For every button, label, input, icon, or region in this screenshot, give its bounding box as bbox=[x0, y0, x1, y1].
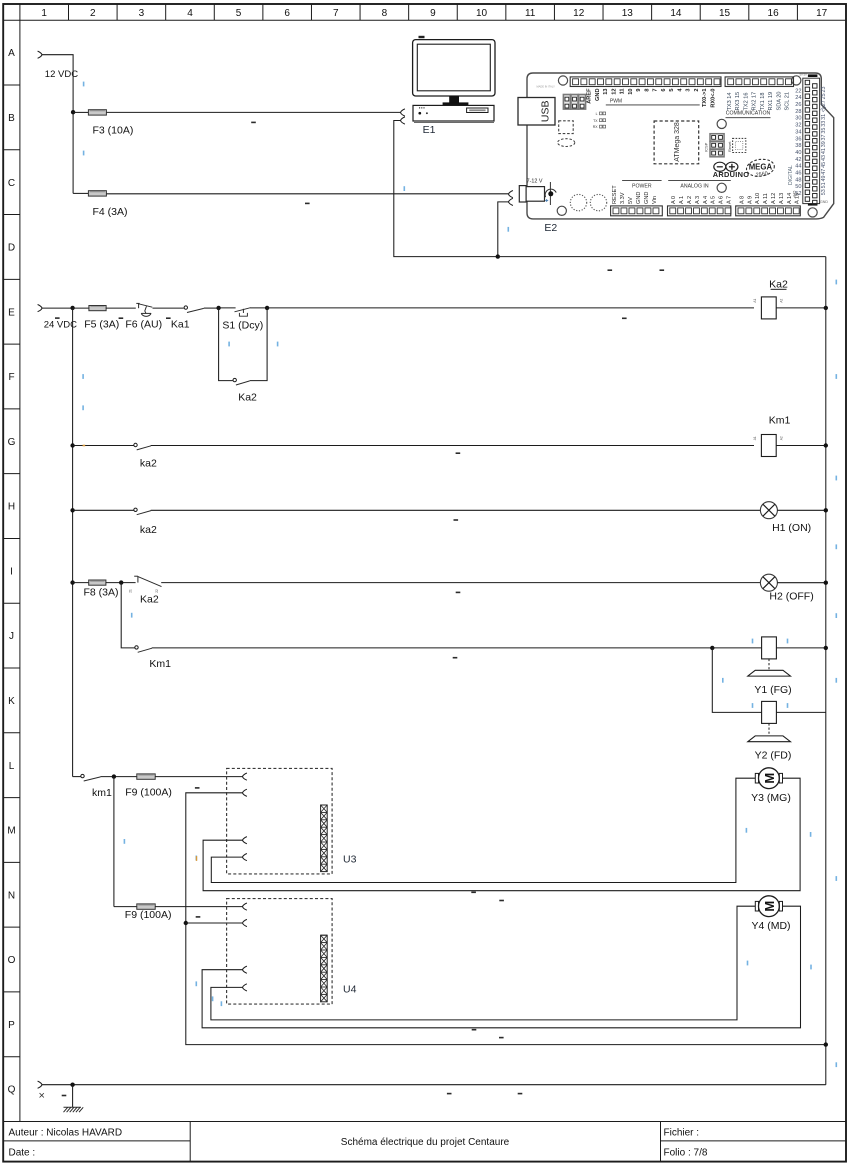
solenoid coil Y1 bbox=[762, 637, 777, 659]
svg-text:49: 49 bbox=[821, 176, 827, 182]
wire 24VDC left bus bbox=[72, 308, 74, 777]
svg-text:SCL 21: SCL 21 bbox=[785, 92, 791, 110]
svg-text:5: 5 bbox=[236, 8, 242, 19]
label Y1 (FG) bbox=[754, 684, 791, 696]
contact Ka2 NC bbox=[134, 576, 161, 587]
wire ka2 to coil Km1 bbox=[151, 445, 754, 447]
wire S1 bypass left bbox=[219, 308, 233, 381]
svg-text:35: 35 bbox=[821, 128, 827, 134]
svg-text:TX3 14: TX3 14 bbox=[727, 92, 733, 110]
svg-text:Ka2: Ka2 bbox=[238, 391, 257, 403]
label A15 bbox=[792, 191, 796, 197]
svg-text:F4 (3A): F4 (3A) bbox=[93, 206, 128, 218]
svg-text:A 7: A 7 bbox=[727, 196, 733, 204]
junction earth bbox=[70, 1083, 74, 1087]
wire F4 feed bbox=[73, 192, 88, 194]
svg-text:Fichier :: Fichier : bbox=[664, 1127, 700, 1138]
drive module U4 box bbox=[227, 899, 333, 1005]
E1 connector pin 1 bbox=[401, 109, 405, 116]
E2 pin labels AREF..RX0 bbox=[587, 88, 717, 108]
E2 power pin labels bbox=[612, 185, 658, 204]
label F5 (3A) bbox=[84, 319, 119, 331]
svg-text:28: 28 bbox=[795, 109, 801, 115]
svg-text:M: M bbox=[7, 826, 15, 837]
svg-text:24: 24 bbox=[795, 95, 801, 101]
wire tick orange bbox=[83, 445, 86, 447]
svg-text:6: 6 bbox=[284, 8, 290, 19]
wire E2 return bbox=[498, 202, 509, 257]
E2 power jack bbox=[519, 179, 544, 202]
svg-text:46: 46 bbox=[795, 171, 801, 177]
wire tick bbox=[83, 82, 85, 87]
wire U3 minus return bbox=[186, 793, 826, 1045]
E2 regulator outline bbox=[559, 121, 574, 134]
wire bus to km1 bbox=[73, 776, 81, 778]
E2 power connector + bbox=[509, 191, 513, 198]
svg-text:Auteur : Nicolas HAVARD: Auteur : Nicolas HAVARD bbox=[9, 1127, 123, 1138]
svg-text:8: 8 bbox=[382, 8, 388, 19]
svg-text:GND: GND bbox=[595, 89, 601, 101]
label F8 (3A) bbox=[84, 586, 119, 598]
wire mark bbox=[119, 317, 124, 319]
wire tick bbox=[124, 839, 126, 844]
wire marks bbox=[499, 832, 811, 901]
label F3 (10A) bbox=[93, 125, 134, 137]
svg-text:40: 40 bbox=[795, 150, 801, 156]
svg-text:A 10: A 10 bbox=[755, 193, 761, 204]
solenoid coil Y2 bbox=[762, 701, 777, 723]
fuse F5 bbox=[89, 306, 106, 311]
svg-text:A 12: A 12 bbox=[771, 193, 777, 204]
wire E1 return bbox=[394, 121, 498, 257]
label MEGA 2560 bbox=[745, 158, 775, 179]
svg-text:I: I bbox=[10, 566, 13, 577]
svg-text:F: F bbox=[8, 372, 14, 383]
wire to earth bbox=[72, 1085, 74, 1108]
svg-text:F9 (100A): F9 (100A) bbox=[125, 909, 172, 921]
U3 output 1 bbox=[243, 837, 247, 844]
junction return bus bbox=[824, 1042, 828, 1046]
wire S1 bypass right bbox=[250, 308, 267, 381]
svg-text:F9 (100A): F9 (100A) bbox=[125, 786, 172, 798]
wire tick bbox=[277, 342, 279, 347]
svg-text:Y3 (MG): Y3 (MG) bbox=[751, 792, 791, 804]
wire mark bbox=[622, 318, 627, 320]
svg-text:5V: 5V bbox=[628, 197, 634, 204]
label Km1 contact bbox=[149, 658, 171, 670]
wire Y1 to bus bbox=[776, 647, 825, 649]
svg-text:21: 21 bbox=[129, 589, 133, 593]
E2 analog pin labels A8-A15 bbox=[739, 193, 800, 204]
wire mark bbox=[166, 317, 171, 319]
wire bus to ka2 G bbox=[73, 445, 134, 447]
svg-text:30: 30 bbox=[795, 116, 801, 122]
svg-text:GND: GND bbox=[644, 192, 650, 204]
svg-text:ANALOG IN: ANALOG IN bbox=[680, 184, 709, 190]
svg-text:13: 13 bbox=[622, 8, 634, 19]
E2 made-in-italy text bbox=[537, 85, 556, 89]
E2 jack polarity symbol bbox=[545, 182, 556, 205]
svg-text:A 11: A 11 bbox=[763, 193, 769, 204]
svg-text:Q: Q bbox=[8, 1085, 16, 1096]
svg-text:6: 6 bbox=[661, 89, 667, 92]
wire mark bbox=[454, 519, 459, 521]
svg-text:TX0->1: TX0->1 bbox=[702, 89, 708, 108]
label H1 (ON) bbox=[772, 522, 811, 534]
drive module U3 box bbox=[227, 768, 333, 874]
labels 5V pins bbox=[800, 73, 808, 77]
svg-text:48: 48 bbox=[795, 177, 801, 183]
svg-text:C: C bbox=[8, 178, 15, 189]
relay coil Km1 bbox=[761, 435, 776, 457]
label F9 (100A) b bbox=[125, 909, 172, 921]
svg-text:A 13: A 13 bbox=[779, 193, 785, 204]
U4 input 2 bbox=[243, 919, 247, 926]
label S1 (Dcy) bbox=[222, 320, 263, 332]
fuse F9b bbox=[137, 904, 155, 909]
svg-text:13: 13 bbox=[603, 89, 609, 95]
svg-text:H1 (ON): H1 (ON) bbox=[772, 522, 811, 534]
motor Y4 bbox=[755, 896, 782, 917]
wire F9a to U3 bbox=[155, 776, 242, 778]
label F9 (100A) a bbox=[125, 786, 172, 798]
svg-text:AREF: AREF bbox=[587, 88, 593, 104]
indicator lamp H1 bbox=[760, 502, 777, 519]
push button S1 (Dcy) bbox=[235, 308, 251, 317]
junction bus row I bbox=[70, 580, 74, 584]
wire F6 to Ka1 bbox=[153, 307, 184, 309]
label Reset bbox=[727, 141, 732, 152]
svg-text:A 0: A 0 bbox=[671, 196, 677, 204]
svg-text:ATMega 328: ATMega 328 bbox=[674, 122, 681, 162]
wire H1 to bus bbox=[777, 509, 825, 511]
wire tick bbox=[228, 342, 230, 347]
svg-text:45: 45 bbox=[821, 162, 827, 168]
svg-text:8: 8 bbox=[644, 89, 650, 92]
E2 pin header communication bbox=[725, 77, 793, 87]
svg-text:ka2: ka2 bbox=[140, 457, 157, 469]
svg-text:36: 36 bbox=[795, 136, 801, 142]
svg-text:A 3: A 3 bbox=[695, 196, 701, 204]
svg-text:D: D bbox=[8, 243, 15, 254]
wire to F9b bbox=[114, 906, 137, 908]
svg-text:5: 5 bbox=[669, 89, 675, 92]
svg-text:U4: U4 bbox=[343, 983, 357, 995]
wire ticks right bus bbox=[836, 280, 838, 1068]
svg-text:A 2: A 2 bbox=[687, 196, 693, 204]
svg-text:RX3 15: RX3 15 bbox=[735, 92, 741, 111]
wire U3 to Y3 right bbox=[203, 778, 800, 891]
wire F8 to junction bbox=[106, 582, 136, 584]
wire return to bus bbox=[498, 256, 826, 258]
wire mark bbox=[456, 452, 461, 454]
label ICSP bbox=[703, 142, 708, 152]
svg-text:Ka2: Ka2 bbox=[140, 593, 159, 605]
svg-text:43: 43 bbox=[821, 155, 827, 161]
coil Km1 pin labels bbox=[753, 436, 784, 440]
svg-text:33: 33 bbox=[821, 121, 827, 127]
svg-text:U3: U3 bbox=[343, 853, 357, 865]
svg-text:L: L bbox=[596, 112, 598, 116]
svg-text:J: J bbox=[9, 631, 14, 642]
svg-text:A: A bbox=[8, 48, 15, 59]
junction S1 left bbox=[216, 306, 220, 310]
U4 input 1 bbox=[243, 903, 247, 910]
contact ka2 G bbox=[134, 443, 151, 450]
svg-text:Vin: Vin bbox=[652, 196, 658, 204]
wire branch to Y2 bbox=[712, 648, 761, 713]
svg-text:ICSP: ICSP bbox=[703, 142, 708, 152]
svg-text:O: O bbox=[8, 955, 16, 966]
label U3 bbox=[343, 853, 357, 865]
svg-text:ka2: ka2 bbox=[140, 524, 157, 536]
junction U4 minus tap bbox=[184, 921, 188, 925]
E2 pin header digital top bbox=[570, 77, 721, 87]
coil Ka2 pin labels bbox=[753, 299, 784, 303]
wire tick bbox=[508, 227, 510, 232]
wire U4 minus bbox=[186, 922, 243, 924]
svg-text:41: 41 bbox=[821, 148, 827, 154]
E2 pin labels 14..21 bbox=[727, 92, 791, 111]
svg-text:Ka2: Ka2 bbox=[769, 278, 788, 290]
svg-text:10: 10 bbox=[476, 8, 488, 19]
E2 jumper header bbox=[563, 95, 585, 110]
svg-text:32: 32 bbox=[795, 123, 801, 129]
svg-text:RX: RX bbox=[593, 125, 598, 129]
label F6 (AU) bbox=[125, 319, 162, 331]
wire S1 to junction bbox=[250, 307, 267, 309]
svg-text:27: 27 bbox=[821, 100, 827, 106]
svg-text:E1: E1 bbox=[423, 124, 436, 136]
svg-text:H: H bbox=[8, 502, 15, 513]
svg-text:3: 3 bbox=[686, 89, 692, 92]
wire Y2 to bus bbox=[776, 711, 825, 713]
Arduino Mega board E2 outline bbox=[527, 73, 834, 219]
junction bus Y1 bbox=[824, 646, 828, 650]
contact Ka2 hold bbox=[233, 378, 250, 385]
svg-text:5V: 5V bbox=[804, 73, 808, 77]
E1 connector pin 2 bbox=[401, 117, 405, 124]
Y2 actuator link bbox=[768, 723, 770, 735]
junction bus row G bbox=[70, 443, 74, 447]
E2 analog header A8-A15 bbox=[736, 206, 801, 216]
wire branch to Km1 contact bbox=[121, 583, 134, 648]
label ka2 H bbox=[140, 524, 157, 536]
svg-text:×: × bbox=[39, 1090, 45, 1102]
svg-text:S1 (Dcy): S1 (Dcy) bbox=[222, 320, 263, 332]
svg-text:23: 23 bbox=[821, 87, 827, 93]
svg-text:A1: A1 bbox=[753, 299, 757, 303]
svg-text:14: 14 bbox=[670, 8, 682, 19]
label coil Ka2 bbox=[769, 278, 788, 290]
wire ticks bbox=[82, 374, 84, 410]
svg-text:47: 47 bbox=[821, 169, 827, 175]
label Ka2 NC bbox=[140, 593, 159, 605]
svg-text:39: 39 bbox=[821, 141, 827, 147]
E2 pin labels 22..52 bbox=[795, 88, 801, 197]
svg-text:10: 10 bbox=[628, 89, 634, 95]
label Y2 (FD) bbox=[755, 749, 792, 761]
E2 arduino logo infinity bbox=[714, 162, 738, 171]
svg-text:A 5: A 5 bbox=[711, 196, 717, 204]
svg-text:A 4: A 4 bbox=[703, 196, 709, 204]
relay coil Ka2 bbox=[761, 297, 776, 319]
label ANALOG IN bbox=[668, 181, 731, 190]
junction return wires bbox=[496, 254, 500, 258]
E2 pin header digital right bbox=[803, 74, 820, 205]
wire right return bus bbox=[825, 257, 827, 1085]
wire to F5 bbox=[73, 307, 89, 309]
svg-text:37: 37 bbox=[821, 134, 827, 140]
label PWM bbox=[606, 99, 700, 105]
label Y4 (MD) bbox=[751, 920, 790, 932]
svg-text:44: 44 bbox=[795, 164, 801, 170]
junction bus row H bbox=[824, 508, 828, 512]
svg-text:Y4 (MD): Y4 (MD) bbox=[751, 920, 790, 932]
wire F5 to F6 bbox=[106, 307, 136, 309]
wire Ka2 to lamp H2 bbox=[161, 582, 760, 584]
E2 mounting holes bbox=[557, 76, 817, 217]
label F4 (3A) bbox=[93, 206, 128, 218]
svg-text:A1: A1 bbox=[753, 436, 757, 440]
wire marks bbox=[471, 828, 747, 893]
Y1 actuator dish bbox=[748, 670, 791, 676]
svg-text:ARDUINO: ARDUINO bbox=[713, 170, 750, 179]
svg-text:22: 22 bbox=[795, 88, 801, 94]
wire tick bbox=[83, 151, 85, 156]
wire Ka1 to S1 bbox=[204, 307, 219, 309]
svg-text:Km1: Km1 bbox=[149, 658, 171, 670]
Y2 coil pin ticks bbox=[752, 703, 789, 708]
svg-text:A2: A2 bbox=[780, 436, 784, 440]
wire ka2 to lamp H1 bbox=[151, 509, 761, 511]
svg-text:GND: GND bbox=[636, 192, 642, 204]
svg-text:Ka1: Ka1 bbox=[171, 319, 190, 331]
svg-text:Reset: Reset bbox=[727, 141, 732, 152]
wire marks bbox=[212, 965, 812, 1039]
label E1 bbox=[423, 124, 436, 136]
wire U4 to Y4 right bbox=[202, 906, 800, 1028]
svg-text:P: P bbox=[8, 1020, 15, 1031]
label U4 bbox=[343, 983, 357, 995]
E2 ICSP header bbox=[710, 134, 724, 157]
wire ground return bbox=[42, 1084, 826, 1086]
svg-text:TX1 18: TX1 18 bbox=[760, 92, 766, 110]
svg-text:K: K bbox=[8, 696, 15, 707]
svg-text:38: 38 bbox=[795, 143, 801, 149]
wire Km1 to Y1 bbox=[152, 647, 713, 649]
contact km1 bbox=[81, 774, 101, 781]
wire F3 feed bbox=[73, 111, 88, 113]
fuse F4 bbox=[88, 191, 106, 196]
label DIGITAL bbox=[788, 165, 794, 185]
junction Y1/Y2 bbox=[710, 646, 714, 650]
E2 analog header A0-A7 bbox=[668, 206, 732, 216]
svg-text:42: 42 bbox=[795, 157, 801, 163]
Y2 actuator dish bbox=[748, 736, 791, 742]
svg-text:17: 17 bbox=[816, 8, 828, 19]
label coil Km1 bbox=[769, 414, 791, 426]
svg-text:Folio : 7/8: Folio : 7/8 bbox=[664, 1148, 708, 1159]
motor Y3 bbox=[755, 768, 782, 789]
svg-text:50: 50 bbox=[795, 184, 801, 190]
U4 output 1 bbox=[243, 966, 247, 973]
svg-text:TX: TX bbox=[593, 119, 598, 123]
svg-text:Schéma électrique du projet Ce: Schéma électrique du projet Centaure bbox=[341, 1137, 510, 1148]
label ka2 G bbox=[140, 457, 157, 469]
U4 terminal strip bbox=[321, 935, 328, 1002]
wire U4 to Y4 left bbox=[211, 906, 755, 1020]
svg-text:31: 31 bbox=[821, 114, 827, 120]
svg-text:MADE IN ITALY: MADE IN ITALY bbox=[537, 85, 556, 89]
svg-text:L: L bbox=[9, 761, 15, 772]
wire tick bbox=[131, 613, 133, 618]
svg-text:7: 7 bbox=[333, 8, 339, 19]
U3 input 1 bbox=[243, 773, 247, 780]
svg-text:N: N bbox=[8, 890, 15, 901]
computer E1 bbox=[413, 36, 495, 123]
E2 power connector - bbox=[509, 198, 513, 205]
label km1 bbox=[92, 787, 112, 799]
svg-text:GND: GND bbox=[820, 200, 828, 204]
svg-text:3: 3 bbox=[139, 8, 145, 19]
svg-text:E2: E2 bbox=[544, 222, 557, 234]
wire to coil Ka2 bbox=[267, 307, 754, 309]
svg-text:MEGA: MEGA bbox=[749, 163, 773, 172]
E2 microcontroller ATMega 328 bbox=[654, 121, 699, 164]
svg-text:TX2 16: TX2 16 bbox=[743, 92, 749, 110]
E2 USB connector bbox=[518, 98, 555, 126]
svg-text:A 6: A 6 bbox=[719, 196, 725, 204]
svg-text:Date :: Date : bbox=[9, 1148, 36, 1159]
wire tick bbox=[404, 186, 406, 191]
U4 output 2 bbox=[243, 984, 247, 991]
wire mark bbox=[305, 203, 310, 205]
junction bus row H bbox=[70, 508, 74, 512]
svg-text:11: 11 bbox=[620, 89, 626, 95]
wire to coil Y1 bbox=[712, 647, 761, 649]
contact Ka1 bbox=[184, 306, 204, 313]
svg-text:F3 (10A): F3 (10A) bbox=[93, 125, 134, 137]
node 24VDC source input bbox=[38, 305, 78, 331]
svg-text:USB: USB bbox=[539, 101, 551, 123]
fuse F3 bbox=[88, 110, 106, 115]
label E2 bbox=[544, 222, 557, 234]
svg-text:B: B bbox=[8, 113, 15, 124]
fuse F8 bbox=[89, 580, 106, 585]
svg-text:F8 (3A): F8 (3A) bbox=[84, 586, 119, 598]
emergency stop contact F6 (AU) bbox=[136, 303, 152, 316]
wire F9b to U4 bbox=[155, 906, 242, 908]
junction bus row E bbox=[824, 306, 828, 310]
svg-text:M: M bbox=[762, 773, 777, 784]
svg-text:H2 (OFF): H2 (OFF) bbox=[769, 590, 813, 602]
wire 24VDC feed bbox=[42, 307, 73, 309]
label POWER bbox=[622, 181, 662, 190]
svg-text:25: 25 bbox=[821, 93, 827, 99]
svg-text:11: 11 bbox=[525, 8, 536, 19]
junction 12VDC / F3 branch bbox=[71, 110, 75, 114]
junction bus row G bbox=[824, 443, 828, 447]
svg-text:DIGITAL: DIGITAL bbox=[788, 165, 794, 185]
svg-text:SDA 20: SDA 20 bbox=[776, 92, 782, 111]
wire F3 to E1 bbox=[107, 111, 401, 113]
svg-text:9: 9 bbox=[430, 8, 436, 19]
svg-text:A2: A2 bbox=[780, 299, 784, 303]
junction km1 branch bbox=[112, 774, 116, 778]
wire 12VDC bus bbox=[42, 55, 73, 194]
svg-text:M: M bbox=[762, 901, 777, 912]
